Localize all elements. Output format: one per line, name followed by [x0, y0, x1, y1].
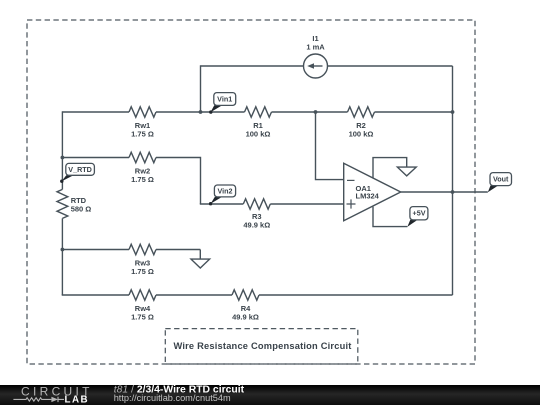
op-amp OA1 triangle	[344, 163, 401, 220]
resistor Rw4	[129, 290, 156, 300]
svg-text:49.9 kΩ: 49.9 kΩ	[232, 313, 259, 322]
current source I1	[304, 54, 328, 78]
wire: op-amp output to Vout	[401, 191, 488, 193]
flag V_RTD	[60, 163, 94, 183]
wire: Rw3 line lead a	[62, 249, 129, 251]
op-amp minus symbol	[347, 179, 355, 181]
svg-text:+5V: +5V	[413, 209, 426, 218]
wire: Vin1 drop from top line	[200, 65, 202, 112]
wire: Rw2 line lead a	[62, 157, 129, 159]
resistor Rw3	[129, 244, 156, 254]
svg-text:1.75 Ω: 1.75 Ω	[131, 267, 154, 276]
svg-text:http://circuitlab.com/cnut54m: http://circuitlab.com/cnut54m	[114, 393, 231, 403]
svg-text:100 kΩ: 100 kΩ	[349, 130, 374, 139]
svg-text:1 mA: 1 mA	[306, 43, 325, 52]
svg-text:Vout: Vout	[493, 175, 509, 184]
svg-text:49.9 kΩ: 49.9 kΩ	[243, 220, 270, 229]
op-amp plus symbol	[347, 199, 356, 208]
flag +5V	[407, 207, 428, 227]
wire: top line left segment	[201, 65, 304, 67]
svg-text:LAB: LAB	[65, 395, 90, 405]
node dot: output junction	[451, 190, 455, 194]
svg-text:100 kΩ: 100 kΩ	[246, 130, 271, 139]
svg-text:1.75 Ω: 1.75 Ω	[131, 313, 154, 322]
wire: left vertical lower	[61, 218, 63, 295]
resistor R4	[232, 290, 259, 300]
node dot: R2 right junction	[451, 110, 455, 114]
wire: main line y=112 lead c	[272, 111, 348, 113]
flag Vin2	[209, 185, 236, 205]
wire: Rw2 line to corner and down to Vin2	[156, 158, 201, 205]
resistor Rw1	[129, 107, 156, 117]
op-amp V+ pin wire to ground	[373, 158, 407, 179]
wire: main line y=112 lead a	[62, 111, 129, 113]
svg-text:Vin2: Vin2	[217, 187, 232, 196]
svg-text:V_RTD: V_RTD	[68, 165, 92, 174]
svg-text:580 Ω: 580 Ω	[71, 205, 92, 214]
svg-text:Wire Resistance Compensation C: Wire Resistance Compensation Circuit	[173, 341, 351, 351]
wire: main line y=112 lead d	[375, 111, 453, 113]
flag Vin1	[209, 93, 236, 114]
wire: Rw4 line lead a	[62, 294, 129, 296]
node dot: R1/R2 junction	[314, 110, 318, 114]
svg-text:1.75 Ω: 1.75 Ω	[131, 130, 154, 139]
resistor R2	[348, 107, 375, 117]
wire: main line y=112 lead b	[156, 111, 245, 113]
ground (Rw3 net)	[191, 250, 210, 269]
op-amp V- pin wire to +5V	[373, 207, 407, 227]
svg-text:Vin1: Vin1	[217, 95, 232, 104]
svg-text:LM324: LM324	[356, 192, 380, 201]
wire: R4 to right vertical	[259, 294, 453, 296]
outer dashed enclosure	[27, 20, 475, 364]
ground (op-amp)	[397, 167, 416, 176]
resistor R1	[245, 107, 272, 117]
wire: Rw3 to ground	[156, 249, 200, 251]
resistor RTD	[57, 189, 68, 218]
node dot: Rw2 junction	[61, 156, 65, 160]
resistor R3	[243, 199, 270, 209]
flag Vout	[488, 173, 512, 193]
wire: top line right segment	[328, 65, 453, 67]
inner dashed box (compensation circuit)	[165, 329, 357, 364]
wire: R3 to op-amp plus input	[270, 203, 343, 205]
wire: right vertical (I1 to R4 line)	[452, 66, 454, 295]
resistor Rw2	[129, 152, 156, 162]
node dot: Vin1 junction	[199, 110, 203, 114]
wire: feedback vertical to minus input	[316, 112, 344, 180]
wire: Rw4 to R4	[156, 294, 232, 296]
wire: left vertical upper	[61, 111, 63, 189]
wire: Vin2 corner to R3	[200, 203, 244, 205]
footer bar	[0, 385, 540, 405]
logo squiggle wire resistor diode	[13, 397, 64, 402]
svg-text:1.75 Ω: 1.75 Ω	[131, 175, 154, 184]
node dot: Rw3 junction	[61, 248, 65, 252]
